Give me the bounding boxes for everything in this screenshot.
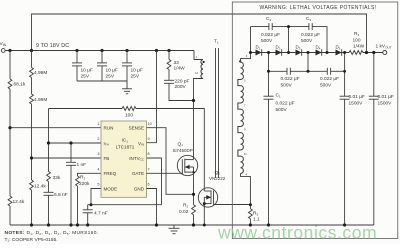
wire: ITH compensation branch x=48.5 (48, 109, 50, 172)
resistor R4 100 (349, 51, 363, 55)
svg-text:4.99M: 4.99M (34, 70, 47, 76)
svg-text:1/4W: 1/4W (353, 44, 365, 50)
svg-text:68.1k: 68.1k (14, 82, 26, 88)
svg-text:4.7 nF: 4.7 nF (94, 211, 108, 217)
wire: Q2 gate to secondary return node (214, 204, 251, 206)
warning box (232, 2, 397, 239)
capacitor 10uF #2 (101, 51, 103, 63)
svg-text:25V: 25V (131, 73, 140, 79)
svg-text:GATE: GATE (132, 171, 144, 176)
wire: SENSE pin to R2 top (147, 128, 194, 195)
svg-text:R2: R2 (183, 203, 188, 209)
svg-text:T1: COOPER VP5-0155.: T1: COOPER VP5-0155. (5, 237, 58, 243)
diode D5 (336, 49, 342, 56)
wire: diode string rail (251, 52, 350, 54)
svg-text:500V: 500V (276, 107, 288, 113)
svg-text:33k: 33k (53, 175, 61, 181)
wire: multiplier top cap row (251, 26, 269, 28)
wire: top feedback wire from divider to multiplier output (32, 14, 367, 53)
svg-text:500V: 500V (320, 82, 332, 88)
svg-text:GND: GND (134, 186, 145, 191)
svg-text:IC1: IC1 (122, 138, 129, 144)
notes text (5, 230, 99, 243)
wire: MODE pin wire (91, 189, 101, 205)
svg-text:VIN: VIN (138, 141, 144, 147)
svg-text:12: 12 (195, 71, 198, 75)
svg-text:1 kVOUT: 1 kVOUT (376, 44, 392, 50)
svg-text:500V: 500V (281, 82, 293, 88)
wire: left divider line x=10 (9, 51, 11, 80)
capacitor row2 B 0.022uF (327, 68, 330, 75)
svg-text:D4: D4 (316, 45, 321, 51)
terminal kV out (383, 51, 387, 55)
svg-text:25V: 25V (81, 73, 90, 79)
transistor Q1 Si7450DP (177, 155, 197, 175)
svg-text:1/4W: 1/4W (174, 66, 186, 72)
svg-text:D1: D1 (256, 45, 261, 51)
capacitor 0.01uF 1500V #2 (373, 53, 375, 97)
wire: secondary top stub (241, 27, 251, 63)
svg-text:FREQ: FREQ (104, 171, 117, 176)
svg-text:0.01 μF: 0.01 μF (349, 94, 365, 100)
svg-text:1500V: 1500V (378, 101, 393, 107)
svg-text:1: 1 (97, 122, 99, 126)
svg-text:0.022 μF: 0.022 μF (261, 32, 280, 38)
diode D3 (296, 49, 302, 56)
resistor 68.1k (8, 79, 12, 89)
wire: 1nF branch x=71 (70, 143, 72, 162)
svg-text:R4: R4 (354, 31, 359, 37)
wire: secondary bottom stub (241, 174, 251, 205)
svg-text:0.02: 0.02 (179, 209, 189, 215)
svg-text:RUN: RUN (104, 126, 114, 131)
svg-text:D2: D2 (276, 45, 281, 51)
svg-text:D5: D5 (336, 45, 341, 51)
svg-text:www.cntronics.com: www.cntronics.com (217, 223, 377, 243)
svg-text:D3: D3 (296, 45, 301, 51)
wire: FB pin wire (32, 157, 102, 159)
wire: ground rail (10, 224, 374, 226)
capacitor 10uF #1 (76, 51, 78, 63)
svg-text:4: 4 (97, 168, 99, 172)
svg-text:Si7450DP: Si7450DP (173, 148, 193, 153)
node: rail junction dots (8, 49, 170, 52)
IC U1 LTC1871 body (101, 121, 147, 197)
resistor 4.99M upper (30, 68, 34, 78)
resistor 12.4k (lower left) (8, 196, 12, 206)
wire: GATE pin to Q1 gate (147, 172, 184, 174)
svg-text:500V: 500V (261, 38, 273, 44)
wire: Q2 source to ground (203, 204, 205, 225)
resistor 100 (122, 107, 136, 111)
capacitor 1nF (66, 162, 76, 165)
capacitor C3 0.022uF (309, 23, 312, 30)
svg-text:10 μF: 10 μF (81, 68, 93, 74)
capacitor 220pF 200V (snubber) (164, 80, 174, 83)
svg-text:VN2222: VN2222 (209, 176, 226, 181)
svg-text:5: 5 (97, 183, 99, 187)
transformer pin numbers (195, 54, 248, 177)
capacitor row2 A 0.022uF (287, 68, 290, 75)
svg-text:1500V: 1500V (349, 101, 364, 107)
transformer phasing dots (203, 61, 205, 63)
svg-text:12.4k: 12.4k (13, 199, 25, 205)
diode D4 (316, 49, 322, 56)
svg-text:1 nF: 1 nF (77, 162, 87, 168)
svg-text:12.4k: 12.4k (34, 183, 46, 189)
svg-text:25V: 25V (106, 73, 115, 79)
svg-text:2: 2 (97, 137, 99, 141)
capacitor 10uF #3 (126, 51, 128, 63)
wire: primary bottom to Q1 drain (194, 79, 204, 160)
resistor 33 1/4W (snubber) (168, 51, 170, 60)
resistor 220k (FREQ) (76, 176, 80, 186)
svg-text:6.8 nF: 6.8 nF (54, 192, 68, 198)
wire: top row center drop (288, 27, 290, 53)
svg-text:0.01 μF: 0.01 μF (378, 94, 394, 100)
svg-text:MODE: MODE (104, 186, 118, 191)
svg-text:0.022 μF: 0.022 μF (281, 76, 300, 82)
wire: n3 drop (307, 53, 309, 72)
wire: divider line x=31.5 (31, 51, 33, 68)
capacitor C2 0.022uF (269, 23, 272, 30)
svg-text:INTVCC: INTVCC (129, 156, 145, 162)
svg-text:3: 3 (97, 152, 99, 156)
svg-text:T1: T1 (214, 39, 219, 45)
wire: rail corner to transformer primary top (194, 51, 203, 60)
svg-text:7: 7 (148, 168, 150, 172)
svg-text:SENSE: SENSE (129, 126, 144, 131)
svg-text:33: 33 (174, 60, 180, 66)
wire: output (363, 52, 383, 54)
capacitor 0.01uF 1500V #1 (344, 53, 346, 97)
wire: bypass cap bottom bus (77, 81, 127, 89)
svg-text:10: 10 (148, 122, 152, 126)
svg-text:NOTES: D1, D2, D3, D4, D5: MUR: NOTES: D1, D2, D3, D4, D5: MURS160. (5, 230, 99, 236)
diode D1 (256, 49, 262, 56)
svg-text:6: 6 (148, 183, 150, 187)
ground (bypass caps) (122, 89, 132, 94)
svg-text:0.022 μF: 0.022 μF (276, 101, 295, 107)
svg-text:4.99M: 4.99M (34, 97, 47, 103)
svg-text:0.022 μF: 0.022 μF (301, 32, 320, 38)
svg-text:C3: C3 (306, 16, 311, 22)
svg-text:10 μF: 10 μF (106, 68, 118, 74)
transformer T1 primary winding (201, 60, 203, 79)
ground (main) (169, 225, 180, 234)
svg-text:ITH: ITH (104, 141, 109, 147)
transformer T1 secondary winding (5 sections) (238, 62, 244, 173)
svg-text:9: 9 (148, 137, 150, 141)
svg-text:WARNING: LETHAL VOLTAGE POTENT: WARNING: LETHAL VOLTAGE POTENTIALS! (260, 5, 377, 11)
transformer T1 core (215, 48, 217, 178)
svg-text:100: 100 (125, 112, 133, 118)
svg-text:0.022 μF: 0.022 μF (320, 76, 339, 82)
pin numbers (97, 122, 151, 187)
wire: VIN pin from rail (147, 51, 157, 143)
svg-text:LTC1871: LTC1871 (116, 145, 135, 150)
resistor 4.99M lower (30, 94, 34, 104)
svg-text:9 TO 18V DC: 9 TO 18V DC (36, 43, 69, 49)
svg-text:8: 8 (148, 152, 150, 156)
wire: ITH pin wire (49, 142, 102, 144)
resistor 33k (47, 172, 51, 182)
resistor R2 0.02 (192, 205, 196, 215)
svg-text:220k: 220k (79, 181, 90, 187)
wire: INTVCC/MODE bypass line (88, 158, 162, 205)
capacitor 6.8nF (44, 192, 54, 195)
svg-text:10 μF: 10 μF (131, 68, 143, 74)
wire: Q1 source to R2 (193, 172, 195, 205)
svg-text:FB: FB (104, 156, 110, 161)
svg-text:R3: R3 (253, 211, 258, 217)
wire: 100 ohm ITH to Q2 drain line (49, 108, 123, 110)
svg-text:220 pF: 220 pF (175, 78, 190, 84)
svg-text:500V: 500V (301, 38, 313, 44)
diode D2 (276, 49, 282, 56)
svg-text:C1: C1 (276, 93, 281, 99)
svg-text:Q1: Q1 (178, 141, 184, 147)
capacitor C1 0.022uF (268, 71, 270, 96)
terminal VIN (1, 49, 5, 53)
wire: FREQ pin wire (78, 173, 102, 176)
wire: VIN rail (3, 50, 194, 52)
capacitor 4.7nF (87, 205, 89, 210)
svg-text:R1: R1 (80, 175, 85, 181)
wire: RUN pin wire (10, 127, 101, 129)
svg-text:200V: 200V (175, 84, 187, 90)
resistor R3 (249, 205, 251, 209)
wire: multiplier second cap row (269, 53, 288, 72)
svg-text:C2: C2 (266, 16, 271, 22)
resistor 12.4k (on FB divider) (30, 180, 34, 190)
svg-text:100: 100 (353, 37, 361, 43)
wire: GND pin to ground rail (147, 189, 157, 226)
transistor Q2 VN2222 (mirrored) (198, 188, 217, 207)
